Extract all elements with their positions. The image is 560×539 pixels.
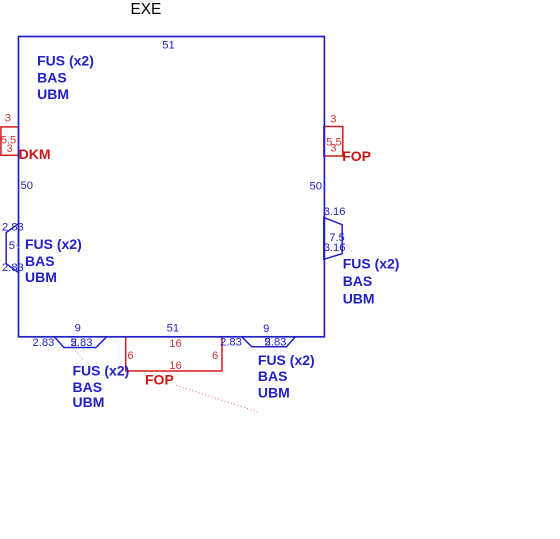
- svg-text:5: 5: [264, 337, 270, 349]
- svg-text:9: 9: [75, 322, 81, 334]
- svg-text:5: 5: [71, 337, 77, 349]
- svg-text:50: 50: [310, 181, 322, 193]
- svg-text:BAS: BAS: [25, 253, 55, 269]
- svg-text:2.83: 2.83: [220, 337, 242, 349]
- svg-text:UBM: UBM: [258, 384, 290, 400]
- svg-text:5: 5: [9, 240, 15, 252]
- svg-text:51: 51: [167, 322, 179, 334]
- svg-text:BAS: BAS: [37, 70, 67, 86]
- svg-text:FUS (x2): FUS (x2): [25, 236, 82, 252]
- svg-text:3.16: 3.16: [324, 242, 346, 254]
- svg-text:FUS (x2): FUS (x2): [343, 255, 400, 271]
- svg-text:3: 3: [330, 143, 336, 155]
- svg-text:2.83: 2.83: [2, 262, 24, 274]
- svg-text:FOP: FOP: [145, 372, 174, 388]
- svg-text:16: 16: [169, 338, 181, 350]
- svg-text:3.16: 3.16: [324, 206, 346, 218]
- svg-text:6: 6: [127, 350, 133, 362]
- svg-text:2.83: 2.83: [33, 337, 55, 349]
- svg-text:51: 51: [162, 39, 174, 51]
- svg-text:BAS: BAS: [258, 368, 288, 384]
- svg-text:BAS: BAS: [73, 379, 103, 395]
- svg-text:3: 3: [7, 143, 13, 155]
- svg-text:50: 50: [21, 180, 33, 192]
- svg-text:UBM: UBM: [25, 269, 57, 285]
- svg-text:FOP: FOP: [342, 148, 371, 164]
- svg-text:3: 3: [5, 112, 11, 124]
- svg-text:FUS (x2): FUS (x2): [37, 53, 94, 69]
- svg-text:2.83: 2.83: [2, 222, 24, 234]
- svg-text:EXE: EXE: [131, 1, 162, 18]
- svg-text:16: 16: [169, 360, 181, 372]
- svg-text:UBM: UBM: [73, 394, 105, 410]
- svg-text:6: 6: [212, 350, 218, 362]
- svg-text:9: 9: [263, 323, 269, 335]
- svg-text:UBM: UBM: [343, 291, 375, 307]
- svg-text:DKM: DKM: [19, 146, 51, 162]
- svg-text:UBM: UBM: [37, 86, 69, 102]
- svg-text:3: 3: [330, 114, 336, 126]
- svg-text:BAS: BAS: [343, 273, 373, 289]
- svg-text:FUS (x2): FUS (x2): [73, 363, 130, 379]
- svg-text:FUS (x2): FUS (x2): [258, 352, 315, 368]
